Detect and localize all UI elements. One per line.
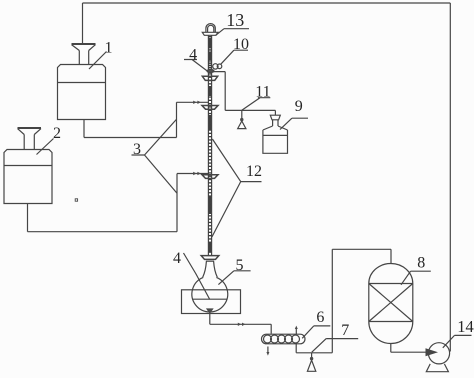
vessel 1 outlet — [83, 120, 85, 138]
wire return stem into vessel 1 funnel — [82, 3, 84, 44]
heat exchanger 6 shell — [262, 334, 306, 344]
svg-text:3: 3 — [133, 141, 141, 158]
flange column bottom — [201, 256, 219, 260]
pump 14 — [426, 343, 449, 372]
label 10 — [221, 50, 248, 64]
wire top recycle line — [83, 2, 451, 4]
label 11 — [242, 98, 270, 111]
label 5 — [218, 271, 250, 285]
label 7 — [312, 339, 358, 353]
svg-text:5: 5 — [236, 257, 244, 274]
svg-text:8: 8 — [417, 255, 425, 272]
svg-text:7: 7 — [341, 322, 349, 339]
label 1 — [89, 52, 107, 70]
label 2 — [37, 139, 54, 155]
vessel 8 packing cross — [369, 284, 413, 322]
medium arrow up — [295, 326, 298, 334]
heat exchanger 6 coil — [264, 335, 300, 343]
joint 10 ball circles — [213, 64, 222, 69]
flange upper — [202, 76, 217, 80]
wire flask to heater — [210, 314, 271, 334]
label 4 upper — [184, 60, 209, 73]
wire vessel 8 outlet to pump — [391, 344, 426, 353]
wire line 11 to bottle 9 — [225, 110, 275, 115]
svg-text:14: 14 — [457, 317, 474, 336]
flow arrows feed 1 — [193, 101, 201, 104]
label 13 — [216, 29, 249, 36]
condenser 13 dome — [202, 24, 218, 36]
vessel 2 outlet — [27, 204, 29, 232]
vessel 1 funnel — [72, 44, 96, 65]
flask liquid level — [192, 298, 227, 300]
svg-text:13: 13 — [226, 10, 244, 30]
wire feed 1 — [84, 102, 208, 137]
column tube walls — [208, 35, 211, 256]
flange at feed 2 port — [202, 175, 218, 179]
flask 5 bulb — [192, 277, 228, 312]
wire heater outlet to riser — [296, 344, 332, 353]
wire riser to vessel 8 — [332, 249, 391, 352]
column packing hatch — [209, 36, 212, 253]
wire feed 2 — [28, 174, 209, 232]
flow arrows flask line — [238, 323, 246, 326]
label 9 — [280, 118, 308, 129]
svg-text:11: 11 — [255, 83, 270, 100]
vessel 1 body — [58, 65, 106, 120]
drain valve 7 with funnel — [307, 353, 315, 372]
svg-text:1: 1 — [105, 40, 113, 57]
svg-text:10: 10 — [233, 36, 249, 53]
column bottom neck into flask — [203, 261, 218, 277]
label 12 — [212, 139, 262, 237]
wire side port to valve 11 line — [212, 72, 225, 111]
svg-text:6: 6 — [316, 309, 324, 326]
label 8 — [401, 271, 431, 285]
vessel 2 body — [4, 150, 52, 204]
svg-text:4: 4 — [173, 250, 181, 267]
vessel 2 funnel — [18, 128, 42, 150]
medium arrow down — [266, 347, 269, 356]
valve 11 with drain funnel — [238, 110, 246, 128]
joint ellipse on tube — [207, 69, 214, 72]
label 14 — [443, 335, 472, 347]
flow arrows feed 2 — [193, 172, 201, 175]
vessel 8 body — [369, 264, 413, 344]
svg-text:9: 9 — [295, 98, 303, 115]
svg-text:4: 4 — [189, 47, 197, 64]
label 6 — [302, 326, 330, 338]
flange at feed 1 port — [202, 106, 218, 110]
flask drain valve — [206, 308, 214, 314]
heating mantle — [182, 290, 241, 314]
label 3 — [132, 120, 177, 194]
wire right riser to pump — [449, 3, 451, 352]
label 4 lower — [184, 253, 210, 300]
bottle 9 — [263, 115, 288, 153]
svg-text:12: 12 — [246, 163, 262, 180]
svg-text:2: 2 — [53, 125, 61, 142]
stray dot — [75, 199, 77, 201]
pump inlet arrow — [426, 348, 439, 356]
